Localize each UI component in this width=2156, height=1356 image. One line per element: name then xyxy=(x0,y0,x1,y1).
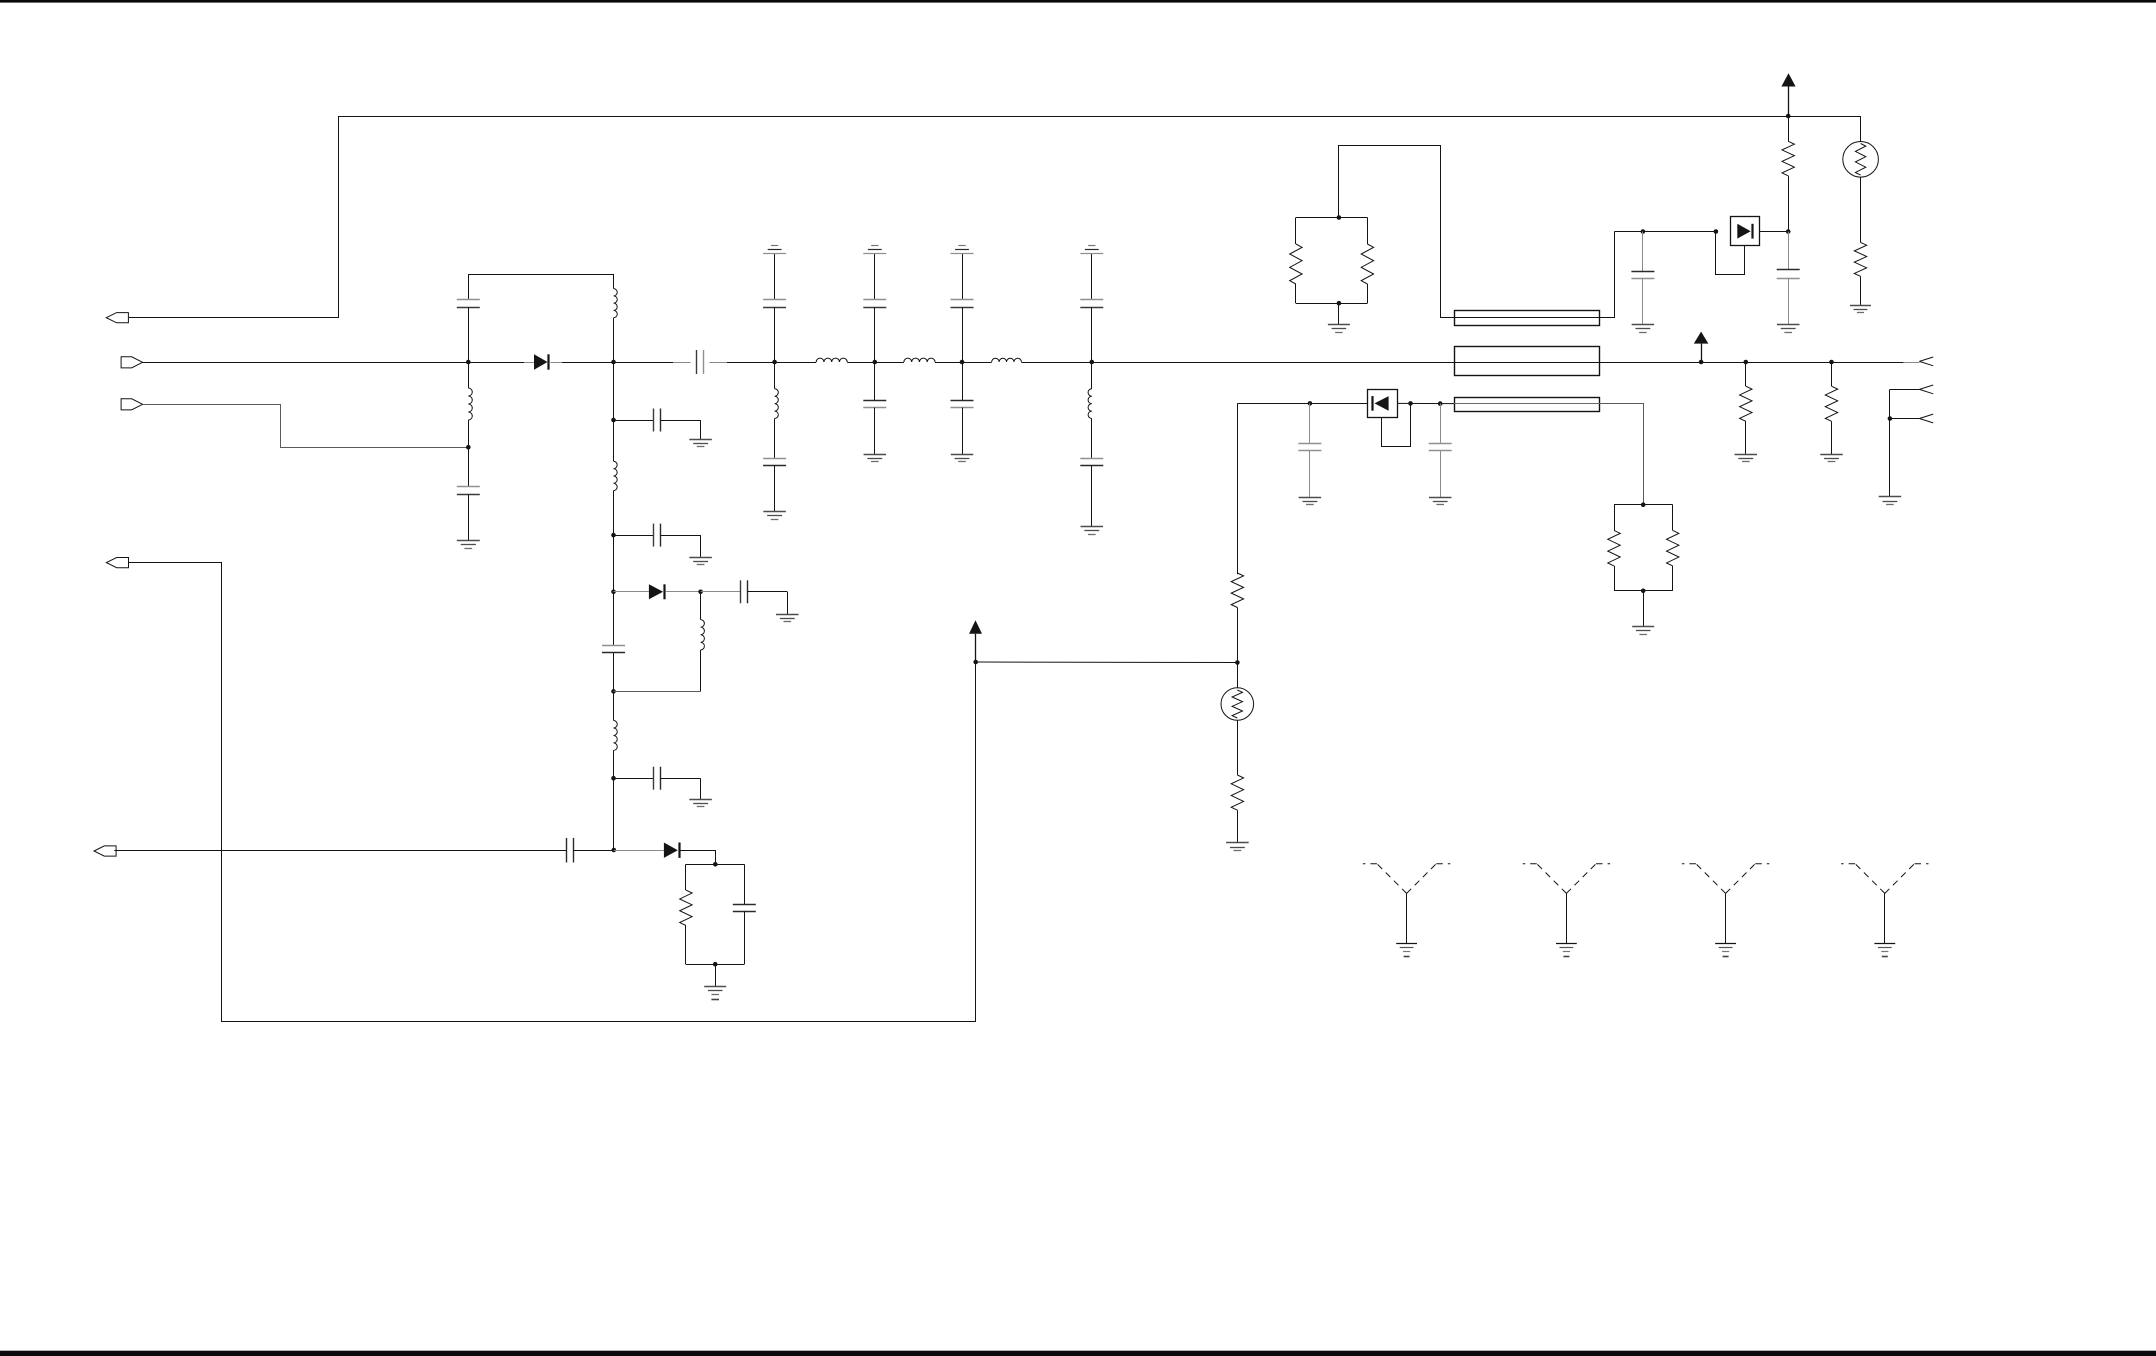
ground x=1745.8 xyxy=(1735,454,1758,456)
port P1 (left-pointing) xyxy=(106,313,128,323)
node main/774.6 xyxy=(772,360,777,365)
capacitor to gnd (740/748) xyxy=(701,591,741,593)
node 1237/662 xyxy=(1235,660,1240,665)
branch cap to gnd at y=535 xyxy=(611,533,616,538)
capacitor C (x=468 to gnd) xyxy=(468,447,470,487)
inductor x=701 (620-650) xyxy=(701,620,705,650)
inductor below node 468 xyxy=(468,362,470,388)
ground x=1831.5 xyxy=(1820,454,1843,456)
node RC bottom xyxy=(713,962,718,967)
series diode D1 on main line xyxy=(534,354,548,369)
shunt capacitor below main x=962.0 xyxy=(962,362,964,401)
ground (1440,502) xyxy=(1429,497,1452,499)
series inductor L2 on main xyxy=(904,358,935,362)
thermistor circle x=1237 xyxy=(1237,663,1239,688)
shunt branch above main at x=1091.8: capacitor to inverted ground xyxy=(1091,253,1093,300)
connector stub pair right edge xyxy=(1890,389,1920,391)
node main/874.8 xyxy=(873,360,878,365)
node RR2 top xyxy=(1641,502,1646,507)
wire diode to RC network xyxy=(680,851,715,865)
capacitor 1310 to gnd xyxy=(1309,403,1311,443)
ground (1860,305) xyxy=(1850,305,1871,307)
coupled-line rectangle 1 (top) xyxy=(1455,311,1600,326)
resistor x=1788 (141-176) xyxy=(1788,116,1790,141)
shunt capacitor x=774.6 xyxy=(763,458,786,460)
port P5 (left-pointing) xyxy=(94,846,116,856)
node RR1 bottom xyxy=(1337,301,1342,306)
series inductor L1 on main xyxy=(816,358,847,362)
ground (700,439) xyxy=(689,439,712,441)
node main/962.0 xyxy=(960,360,965,365)
antenna symbol x=1725.6 xyxy=(1682,864,1726,894)
right end connector (main line) xyxy=(1919,357,1933,361)
shunt branch above main at x=962.0: capacitor to inverted ground xyxy=(962,253,964,300)
wire port P5 xyxy=(114,850,566,852)
node main/613 xyxy=(611,360,616,365)
ground (1237,841) xyxy=(1226,842,1249,844)
inductor x=613 (461-491) xyxy=(614,461,618,490)
bypass wire of boxed diode 2 xyxy=(1382,403,1411,446)
ground (1339,320) xyxy=(1328,324,1350,326)
shunt branch above main at x=774.6: capacitor to inverted ground xyxy=(774,253,776,300)
capacitor on column x=613 (645/652) xyxy=(602,645,625,647)
resistor in RC xyxy=(680,890,692,925)
shunt resistor to gnd at x=1745.8 xyxy=(1744,360,1749,365)
ground (700,557) xyxy=(689,557,712,559)
power arrow x=975 xyxy=(969,620,982,633)
inverted ground x=874.8 xyxy=(871,245,878,247)
node 468/447 xyxy=(466,445,471,450)
wire through rect3 xyxy=(1454,403,1600,405)
wire rect1-right up to y=231.5 xyxy=(1600,232,1615,318)
ground x=774.6 xyxy=(763,511,786,513)
node 1716/231 xyxy=(1714,229,1719,234)
wire RR1 top to rect1 left xyxy=(1339,146,1455,318)
shunt branch above main at x=874.8: capacitor to inverted ground xyxy=(874,253,876,300)
ground (787,614) xyxy=(776,614,799,616)
diode D at y=850 xyxy=(614,850,664,852)
coupled-line rectangle 3 (bottom) xyxy=(1455,398,1600,412)
wire rect3 right, down to RR2 xyxy=(1600,404,1644,505)
ground x=874.8 xyxy=(864,454,887,456)
node top wire / 1788 xyxy=(1786,114,1791,119)
antenna symbol x=1566.4 xyxy=(1523,864,1567,894)
ground (1310,503) xyxy=(1299,497,1322,499)
ground (1643,332) xyxy=(1632,324,1655,326)
inductor L-top (x=613) xyxy=(613,274,615,289)
resistor 1237 (574-614) xyxy=(1231,573,1243,608)
inductor x=613 (720-750) xyxy=(614,721,618,751)
wire through rect1 xyxy=(1454,317,1600,319)
wire y=231.5 xyxy=(1614,231,1716,233)
ground (1788,324) xyxy=(1777,324,1800,326)
coupled-line rectangle 2 (main) xyxy=(1455,347,1600,376)
series inductor L3 on main xyxy=(992,358,1022,362)
series capacitor on port5 wire (566/573) xyxy=(566,838,568,863)
antenna symbol x=1406.6 xyxy=(1363,864,1407,894)
thermistor/varistor circle x=1860 xyxy=(1786,116,1861,118)
boxed diode (top right) xyxy=(1731,217,1760,246)
node 975/662 xyxy=(973,660,978,665)
resistor RR1-left xyxy=(1290,244,1302,284)
node 1788/231 xyxy=(1786,229,1791,234)
inverted ground x=774.6 xyxy=(771,245,778,247)
port P3 (right-pointing) xyxy=(121,399,143,410)
ground (1643,627) xyxy=(1632,626,1654,628)
resistor 1237 (774-810) xyxy=(1231,775,1243,810)
power arrow above 1788 xyxy=(1781,73,1795,86)
loop wire y=691 to inductor x=701 xyxy=(611,689,616,694)
node 1643/231 xyxy=(1641,229,1646,234)
ground x=1091.8 xyxy=(1081,526,1104,528)
resistor x=1860 (242-276) xyxy=(1854,242,1866,276)
node RR2 bottom xyxy=(1641,589,1646,594)
branch cap to gnd at y=778 xyxy=(611,776,616,781)
top rail wire of parallel LC xyxy=(468,274,613,276)
capacitor C-left-top (x=468) xyxy=(468,274,470,300)
node 1310/403 xyxy=(1308,401,1313,406)
node 1410/403 xyxy=(1408,401,1413,406)
capacitor in RC xyxy=(733,904,756,906)
shunt capacitor below main x=874.8 xyxy=(874,362,876,401)
second line left segment xyxy=(1237,403,1367,405)
bottom page border bar xyxy=(0,1351,2156,1356)
wire port P4 bottom routing xyxy=(129,563,976,1022)
series capacitor C-main (696/704) xyxy=(696,350,698,374)
capacitor 1788 to gnd xyxy=(1788,232,1790,270)
power arrow at x=1701 on main xyxy=(1694,332,1709,344)
wire port P1 to top rail xyxy=(129,117,1786,318)
node 1440/403 xyxy=(1438,401,1443,406)
shunt inductor below main x=1091.8 xyxy=(1091,362,1093,389)
capacitor 1643 to gnd xyxy=(1642,232,1644,272)
capacitor 1440 to gnd xyxy=(1440,404,1442,444)
ground (715,986) xyxy=(704,986,726,988)
parallel RR network (top) xyxy=(1296,217,1368,219)
ground (x=468) xyxy=(457,540,480,542)
branch cap to gnd at y=420 xyxy=(611,418,616,423)
bypass wire of boxed diode xyxy=(1716,232,1745,275)
node RC top xyxy=(713,862,718,867)
shunt capacitor x=1091.8 xyxy=(1080,458,1103,460)
node RR1 top xyxy=(1337,215,1342,220)
resistor RR2-left xyxy=(1608,530,1620,566)
port P4 (left-pointing) xyxy=(106,558,128,568)
ground (1890,497) xyxy=(1879,496,1902,498)
wire port P3 to node (468,447) xyxy=(143,405,469,448)
inverted ground x=1091.8 xyxy=(1088,245,1095,247)
shunt inductor below main x=774.6 xyxy=(774,362,776,389)
node 701/592 xyxy=(698,590,703,595)
parallel RR network 2 xyxy=(1614,504,1673,506)
wire x=613 column xyxy=(613,362,615,461)
top page border bar xyxy=(0,0,2156,3)
branch diode at y=592 xyxy=(611,590,616,595)
node main/468 xyxy=(466,360,471,365)
wire 975-1237 at y=662 xyxy=(976,661,1238,664)
node main/1091.8 xyxy=(1090,360,1095,365)
ground x=962.0 xyxy=(951,454,974,456)
resistor RR1-right xyxy=(1361,244,1373,284)
port P2 (RF input, right-pointing) xyxy=(121,357,143,368)
antenna symbol x=1884.8 xyxy=(1841,864,1885,894)
RC parallel network (R left, C right) xyxy=(686,864,744,866)
ground (700,799) xyxy=(689,799,712,801)
resistor RR2-right xyxy=(1667,530,1679,566)
inverted ground x=962.0 xyxy=(958,245,965,247)
shunt resistor to gnd at x=1831.5 xyxy=(1829,360,1834,365)
main RF line (wire) xyxy=(143,362,534,364)
node 613/850 xyxy=(612,848,617,853)
column x=1237 xyxy=(1237,403,1239,574)
boxed diode (mid, pointing left) xyxy=(1368,390,1398,418)
pin stubs (gray) on main line xyxy=(673,362,690,364)
